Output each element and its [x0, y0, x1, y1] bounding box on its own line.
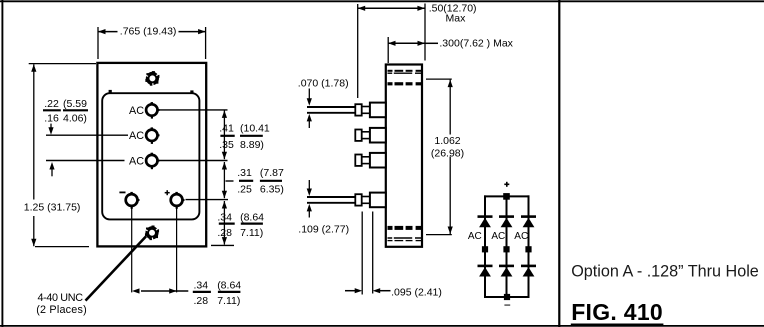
dimension 1.25 (31.75) extension lines [29, 64, 96, 247]
dimension 1.062 extension lines [426, 79, 452, 235]
svg-text:.25: .25 [237, 183, 252, 195]
dimension text .34/.28 (8.64/7.11) bottom [193, 279, 241, 306]
dimension 1.062 dim line w/ arrows [448, 80, 453, 234]
dimension text .31/.25 (7.87/6.35) [237, 167, 284, 195]
pin plus hole [171, 192, 185, 209]
dimension .095 extension lines [362, 212, 373, 295]
side view pin 1 (AC) [307, 103, 386, 118]
title-block divider line [558, 0, 560, 327]
package outline side view [386, 65, 422, 247]
svg-text:Option A - .128” Thru Hole: Option A - .128” Thru Hole [571, 263, 759, 281]
svg-text:.28: .28 [194, 295, 209, 307]
svg-text:.35: .35 [219, 139, 234, 151]
mold marks on body top [109, 90, 194, 93]
svg-text:.22: .22 [44, 98, 59, 110]
svg-text:.095 (2.41): .095 (2.41) [391, 287, 442, 299]
leader line pin AC3 left [46, 160, 125, 162]
dimension text .34/.28 (8.64/7.11) right [217, 212, 264, 239]
pin AC1 hole [146, 102, 159, 119]
leader stub .31 block [226, 180, 234, 182]
leader line pin AC3 right [159, 160, 228, 162]
svg-text:FIG. 410: FIG. 410 [571, 299, 663, 325]
package outline front view [97, 63, 206, 247]
dimension text 1.062 (26.98) [431, 135, 464, 159]
svg-text:.34: .34 [217, 212, 232, 224]
dimension .50 extension lines [358, 4, 425, 99]
svg-text:1.25 (31.75): 1.25 (31.75) [24, 201, 81, 213]
diode D1 (upper left) [478, 217, 493, 228]
leader line pin AC2 [46, 134, 128, 136]
node AC left junction [482, 246, 488, 252]
leader line pin AC1 [159, 109, 228, 111]
title underline [571, 324, 664, 326]
pin minus hole [126, 192, 140, 209]
hidden (dashed) lines top of body [388, 71, 422, 84]
svg-text:7.11): 7.11) [217, 295, 240, 307]
svg-text:AC: AC [491, 231, 505, 242]
svg-text:.109 (2.77): .109 (2.77) [298, 223, 349, 235]
wire left leg [484, 195, 486, 298]
hidden (dashed) lines bottom of body [388, 228, 422, 241]
dimension .109 arrows [307, 180, 312, 218]
diode D3 (upper right) [521, 217, 536, 228]
wire middle leg [506, 195, 508, 298]
svg-text:AC: AC [468, 231, 482, 242]
wire right leg [528, 195, 530, 298]
node plus (top junction) [503, 193, 510, 200]
svg-text:1.062: 1.062 [434, 135, 460, 147]
side view pin 2 (AC) [355, 128, 386, 143]
leader line 4-40 UNC [86, 236, 147, 300]
pin AC2 hole [146, 127, 159, 144]
dimension 1.25 (31.75) dim line w/ arrows [31, 64, 36, 246]
label plus terminal [504, 182, 509, 187]
dimension text .22/.16 (5.59/4.06) [43, 98, 88, 124]
svg-text:.16: .16 [44, 112, 59, 124]
svg-text:7.11): 7.11) [240, 227, 263, 239]
svg-text:.31: .31 [237, 167, 252, 179]
dimension .765 (19.43) dim line w/ arrows [98, 29, 206, 34]
node AC right junction [525, 246, 531, 252]
svg-text:.300(7.62 ) Max: .300(7.62 ) Max [439, 37, 513, 49]
node minus (bottom junction) [504, 294, 510, 300]
right dimension line segments with arrows [222, 110, 227, 244]
dimension .16 arrow up [49, 162, 54, 176]
svg-text:.765 (19.43): .765 (19.43) [120, 25, 177, 37]
svg-text:(7.87: (7.87 [260, 167, 284, 179]
extension line package bottom right [211, 244, 234, 246]
diode D5 (lower middle) [499, 266, 514, 277]
dimension text .41/.35 (10.41/8.89) [219, 122, 270, 150]
mounting hole (4-40 UNC) top [145, 71, 159, 86]
label minus terminal [504, 304, 510, 306]
leader line plus pin [186, 199, 229, 201]
svg-text:.28: .28 [217, 227, 232, 239]
dimension .070 arrows [307, 89, 312, 129]
dimension .765 (19.43) extension lines [98, 27, 206, 59]
svg-text:AC: AC [129, 155, 144, 167]
dimension text .50(12.70) Max [429, 2, 477, 24]
extension line minus pin down [131, 208, 133, 293]
svg-text:.41: .41 [219, 122, 234, 134]
bottom dimension line w/ arrows [132, 288, 188, 293]
pin AC3 hole [146, 153, 159, 170]
svg-text:4-40 UNC: 4-40 UNC [38, 292, 84, 304]
wire bottom bus [484, 296, 530, 298]
svg-text:(26.98): (26.98) [431, 147, 464, 159]
svg-text:.070 (1.78): .070 (1.78) [298, 77, 349, 89]
svg-text:(8.64: (8.64 [240, 212, 264, 224]
svg-text:AC: AC [514, 231, 528, 242]
side view pin 3 (AC) [355, 153, 386, 168]
dimension .300 dim line w/ arrows + leader [388, 41, 438, 46]
side view pin 4 (+/-) [307, 193, 386, 208]
label minus pin [119, 191, 125, 193]
dimension .300 extension line [387, 37, 389, 63]
package body inner rounded outline [102, 93, 199, 219]
svg-text:AC: AC [129, 130, 144, 142]
svg-text:(5.59: (5.59 [63, 98, 87, 110]
wire top bus [484, 195, 530, 197]
svg-text:(2 Places): (2 Places) [36, 304, 86, 316]
svg-text:Max: Max [446, 13, 467, 25]
svg-text:(8.64: (8.64 [217, 279, 241, 291]
diode D2 (upper middle) [499, 217, 514, 228]
diode D6 (lower right) [521, 266, 536, 277]
extension line plus pin down [176, 208, 178, 293]
dimension .095 arrows + leader [345, 288, 391, 293]
label plus pin [165, 190, 170, 195]
node AC middle junction [503, 246, 509, 252]
svg-text:AC: AC [129, 105, 144, 117]
svg-text:4.06): 4.06) [63, 112, 87, 124]
svg-text:.34: .34 [194, 279, 209, 291]
svg-text:(10.41: (10.41 [240, 122, 270, 134]
svg-text:8.89): 8.89) [240, 139, 264, 151]
dimension .50 dim line w/ arrows [358, 6, 425, 11]
diode D4 (lower left) [478, 266, 493, 277]
mounting hole (4-40 UNC) bottom [145, 225, 159, 240]
svg-text:6.35): 6.35) [260, 183, 284, 195]
dimension .22 arrow down [48, 124, 53, 135]
